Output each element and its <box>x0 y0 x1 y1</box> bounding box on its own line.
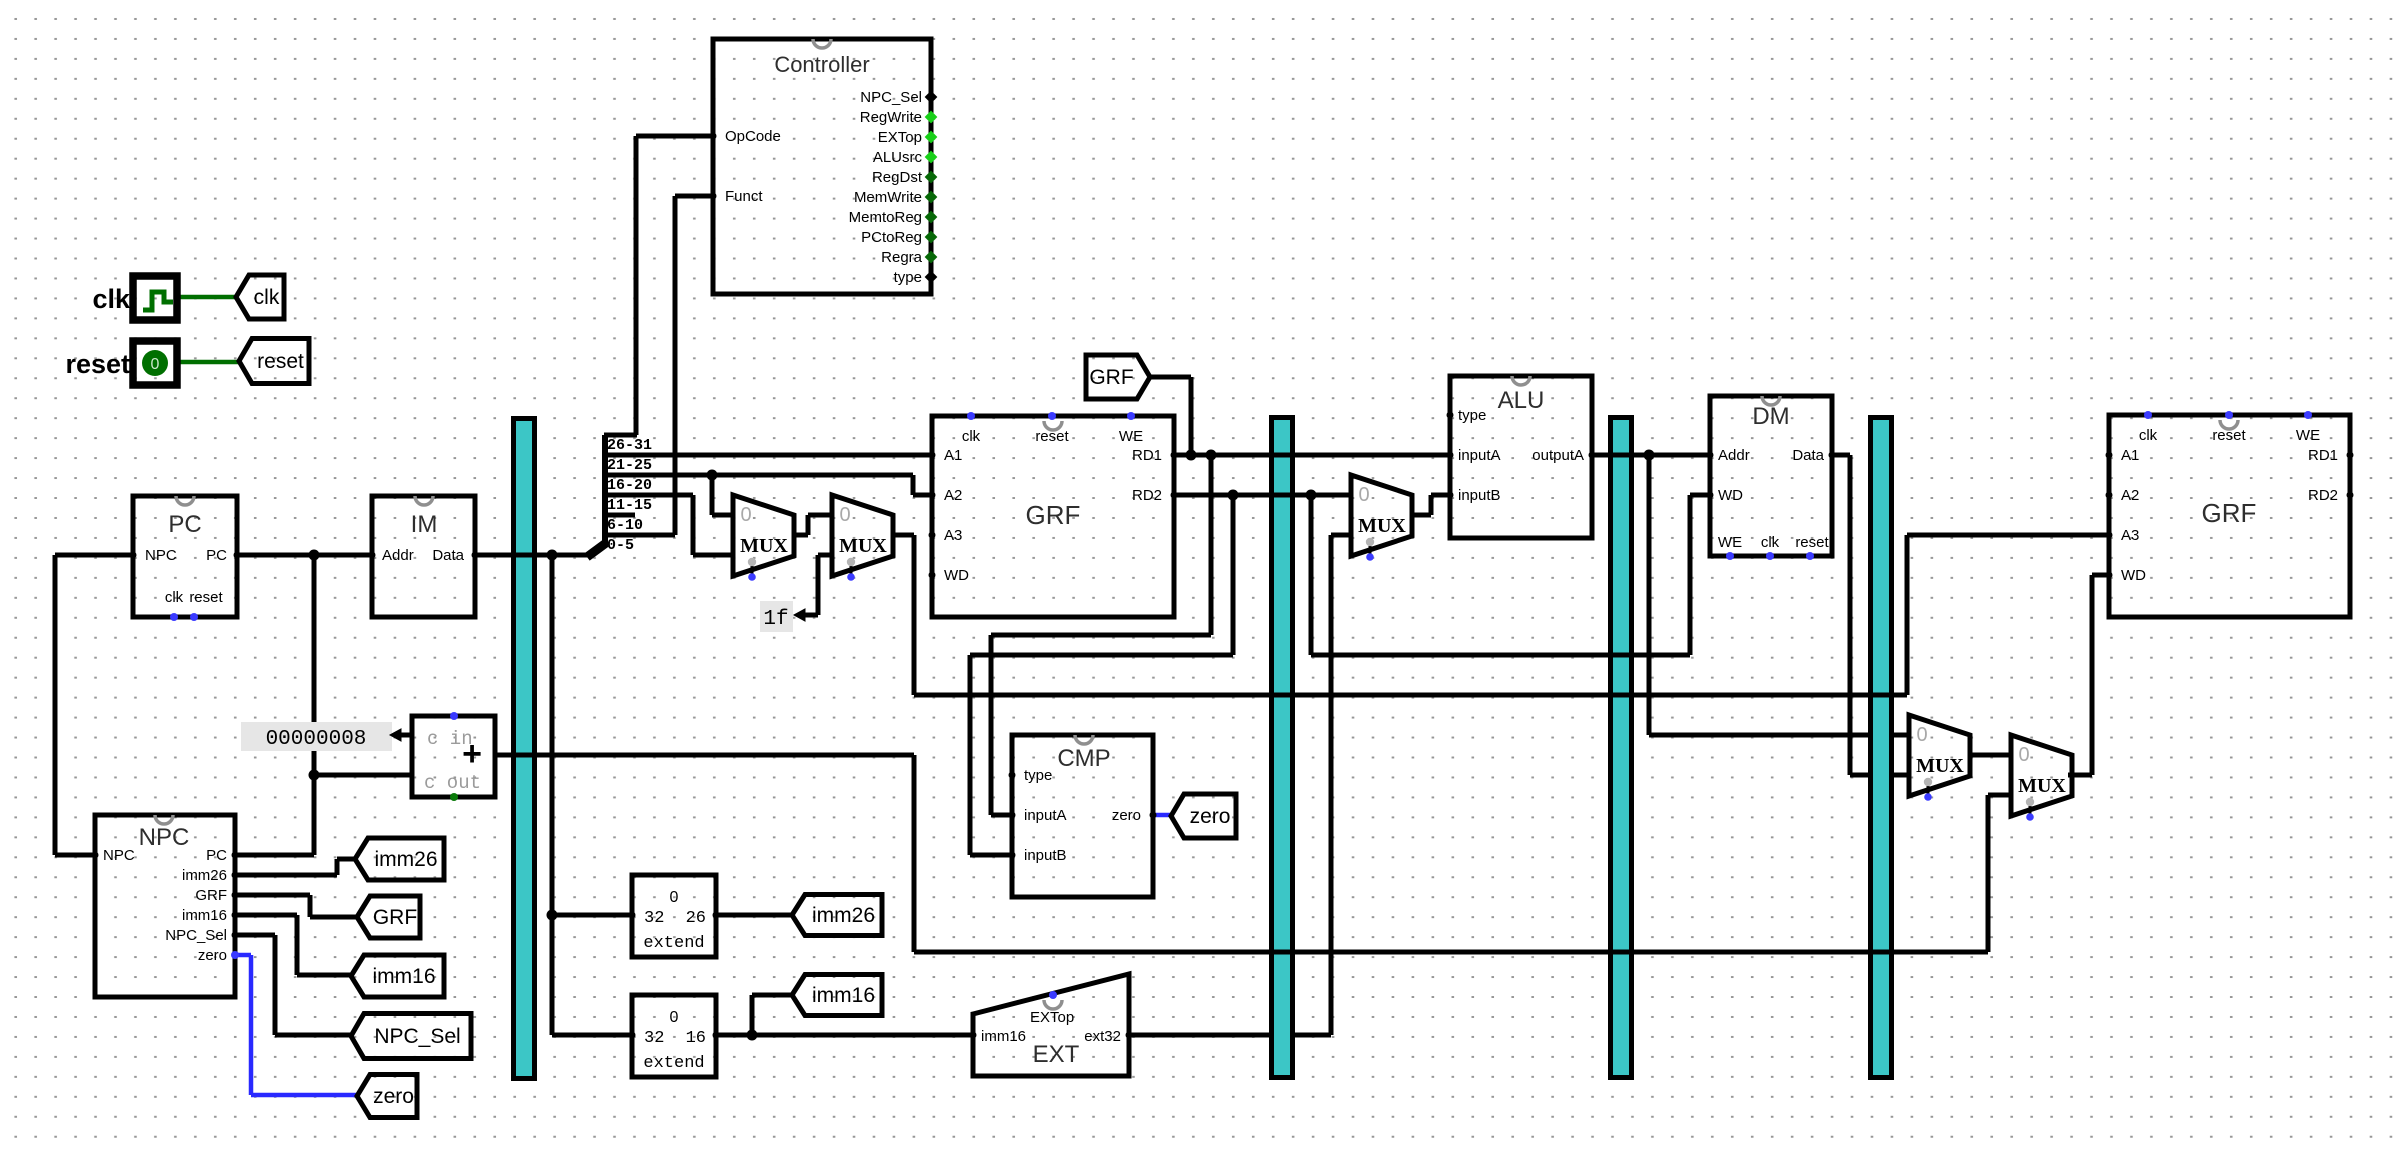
svg-text:imm16: imm16 <box>812 984 875 1007</box>
svg-text:A1: A1 <box>944 447 962 464</box>
svg-text:PCtoReg: PCtoReg <box>861 229 922 246</box>
svg-text:type: type <box>894 269 922 286</box>
svg-text:+: + <box>462 735 482 773</box>
svg-text:RD2: RD2 <box>1132 487 1162 504</box>
svg-text:ALU: ALU <box>1498 387 1545 414</box>
svg-text:0: 0 <box>839 504 850 526</box>
svg-text:inputB: inputB <box>1458 487 1501 504</box>
svg-text:inputA: inputA <box>1024 807 1067 824</box>
svg-text:NPC_Sel: NPC_Sel <box>165 927 227 944</box>
svg-text:ALUsrc: ALUsrc <box>873 149 923 166</box>
svg-text:0: 0 <box>740 504 751 526</box>
svg-text:clk: clk <box>254 286 280 309</box>
svg-text:imm26: imm26 <box>374 848 437 871</box>
svg-text:EXTop: EXTop <box>878 129 922 146</box>
svg-text:type: type <box>1024 767 1052 784</box>
svg-text:imm16: imm16 <box>981 1028 1026 1045</box>
svg-text:ext32: ext32 <box>1084 1028 1121 1045</box>
svg-text:MUX: MUX <box>839 535 887 557</box>
svg-text:RegDst: RegDst <box>872 169 923 186</box>
svg-text:26: 26 <box>686 909 706 928</box>
svg-text:zero: zero <box>1112 807 1141 824</box>
svg-text:NPC_Sel: NPC_Sel <box>374 1025 460 1048</box>
svg-text:reset: reset <box>65 349 130 379</box>
svg-text:0: 0 <box>670 1009 679 1026</box>
svg-text:imm26: imm26 <box>812 904 875 927</box>
svg-text:0: 0 <box>1916 724 1927 746</box>
svg-text:NPC: NPC <box>103 847 135 864</box>
svg-text:NPC: NPC <box>139 824 190 851</box>
svg-text:zero: zero <box>373 1085 414 1108</box>
svg-text:WE: WE <box>1119 428 1143 445</box>
svg-text:NPC: NPC <box>145 547 177 564</box>
svg-text:16: 16 <box>686 1029 706 1048</box>
svg-text:Regra: Regra <box>881 249 923 266</box>
svg-text:RD1: RD1 <box>2308 447 2338 464</box>
svg-text:21-25: 21-25 <box>607 457 652 474</box>
svg-text:RD2: RD2 <box>2308 487 2338 504</box>
svg-text:outputA: outputA <box>1532 447 1584 464</box>
svg-text:zero: zero <box>1190 805 1231 828</box>
svg-text:PC: PC <box>168 511 201 538</box>
svg-text:PC: PC <box>206 547 227 564</box>
svg-text:zero: zero <box>198 947 227 964</box>
svg-text:32: 32 <box>644 909 664 928</box>
svg-text:clk: clk <box>1761 534 1780 551</box>
svg-text:clk: clk <box>92 284 131 314</box>
svg-text:16-20: 16-20 <box>607 477 652 494</box>
svg-text:RD1: RD1 <box>1132 447 1162 464</box>
svg-text:WD: WD <box>2121 567 2146 584</box>
svg-text:00000008: 00000008 <box>266 728 367 751</box>
svg-text:IM: IM <box>411 511 438 538</box>
svg-text:reset: reset <box>2212 427 2246 444</box>
svg-text:MemWrite: MemWrite <box>854 189 922 206</box>
svg-text:A1: A1 <box>2121 447 2139 464</box>
svg-text:6-10: 6-10 <box>607 517 643 534</box>
svg-text:Addr: Addr <box>382 547 414 564</box>
svg-text:0: 0 <box>670 889 679 906</box>
svg-text:reset: reset <box>1035 428 1069 445</box>
svg-text:26-31: 26-31 <box>607 437 652 454</box>
svg-text:GRF: GRF <box>195 887 227 904</box>
svg-text:A2: A2 <box>2121 487 2139 504</box>
svg-text:reset: reset <box>1795 534 1829 551</box>
svg-text:PC: PC <box>206 847 227 864</box>
svg-text:MUX: MUX <box>1916 755 1964 777</box>
svg-text:EXTop: EXTop <box>1030 1009 1074 1026</box>
svg-text:imm16: imm16 <box>182 907 227 924</box>
svg-text:Controller: Controller <box>774 52 869 77</box>
svg-text:clk: clk <box>962 428 981 445</box>
svg-text:Funct: Funct <box>725 188 763 205</box>
svg-text:GRF: GRF <box>1026 500 1081 530</box>
svg-text:CMP: CMP <box>1057 745 1110 772</box>
svg-text:Data: Data <box>1792 447 1824 464</box>
svg-text:MemtoReg: MemtoReg <box>849 209 922 226</box>
svg-text:DM: DM <box>1752 403 1789 430</box>
svg-text:MUX: MUX <box>1358 515 1406 537</box>
svg-text:32: 32 <box>644 1029 664 1048</box>
svg-text:inputB: inputB <box>1024 847 1067 864</box>
svg-text:0-5: 0-5 <box>607 537 634 554</box>
svg-text:imm16: imm16 <box>372 965 435 988</box>
svg-text:0: 0 <box>151 356 160 373</box>
svg-text:OpCode: OpCode <box>725 128 781 145</box>
svg-text:imm26: imm26 <box>182 867 227 884</box>
svg-text:1f: 1f <box>763 608 788 631</box>
svg-text:Addr: Addr <box>1718 447 1750 464</box>
svg-text:NPC_Sel: NPC_Sel <box>860 89 922 106</box>
svg-text:0: 0 <box>2018 744 2029 766</box>
svg-text:c out: c out <box>424 772 481 794</box>
svg-text:MUX: MUX <box>2018 775 2066 797</box>
svg-text:WD: WD <box>944 567 969 584</box>
svg-text:11-15: 11-15 <box>607 497 652 514</box>
svg-text:reset: reset <box>257 350 304 373</box>
svg-text:A3: A3 <box>944 527 962 544</box>
svg-text:Data: Data <box>432 547 464 564</box>
svg-text:WE: WE <box>2296 427 2320 444</box>
svg-text:WD: WD <box>1718 487 1743 504</box>
svg-text:EXT: EXT <box>1033 1041 1080 1068</box>
svg-text:GRF: GRF <box>2202 498 2257 528</box>
svg-text:GRF: GRF <box>1089 366 1133 389</box>
svg-text:clk: clk <box>165 589 184 606</box>
svg-text:inputA: inputA <box>1458 447 1501 464</box>
svg-text:WE: WE <box>1718 534 1742 551</box>
svg-text:reset: reset <box>189 589 223 606</box>
svg-text:GRF: GRF <box>373 906 417 929</box>
svg-text:type: type <box>1458 407 1486 424</box>
svg-text:RegWrite: RegWrite <box>860 109 922 126</box>
svg-text:clk: clk <box>2139 427 2158 444</box>
svg-text:extend: extend <box>643 934 704 953</box>
svg-text:extend: extend <box>643 1054 704 1073</box>
svg-text:MUX: MUX <box>740 535 788 557</box>
svg-text:A3: A3 <box>2121 527 2139 544</box>
svg-text:0: 0 <box>1358 484 1369 506</box>
svg-text:A2: A2 <box>944 487 962 504</box>
